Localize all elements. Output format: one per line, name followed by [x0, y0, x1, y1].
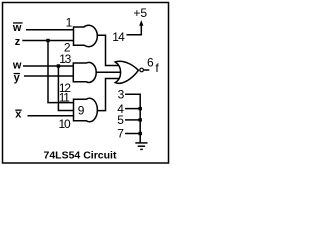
wire pin3 to ground bus: [125, 94, 140, 142]
wire G1 output to NOR top input: [97, 35, 122, 65]
wire z branch down to pin11: [48, 41, 75, 103]
input label w-bar: [12, 22, 23, 34]
wire x-bar to pin10: [28, 115, 75, 117]
NOR gate U1: [115, 61, 138, 83]
wire bubble to f: [144, 69, 150, 71]
border frame: [3, 3, 169, 164]
svg-text:w: w: [12, 22, 22, 34]
wire G2 output to NOR middle input: [96, 71, 122, 73]
input label y-bar: [14, 72, 21, 84]
ground symbol: [135, 143, 147, 150]
junction dot pin4: [139, 107, 142, 110]
wire pin7 to bus: [125, 133, 140, 135]
NOR output bubble pin 6: [140, 68, 144, 72]
svg-text:z: z: [15, 36, 21, 48]
svg-text:9: 9: [78, 103, 85, 117]
junction dot on w wire: [57, 64, 60, 67]
wire w branch down to pin9: [58, 66, 74, 111]
svg-text:5: 5: [117, 113, 124, 127]
svg-text:w: w: [12, 60, 22, 72]
svg-text:74LS54 Circuit: 74LS54 Circuit: [44, 149, 117, 161]
svg-text:11: 11: [59, 91, 71, 105]
svg-text:3: 3: [118, 87, 125, 101]
svg-text:1: 1: [66, 15, 73, 29]
wire pin4 to bus: [125, 108, 140, 110]
wire pin14 to +5 arrow: [127, 23, 142, 35]
wire pin5 to bus: [125, 119, 140, 121]
wire G3 output to NOR bottom input: [97, 79, 121, 111]
svg-text:6: 6: [147, 56, 154, 70]
wire z to pin2: [22, 40, 74, 42]
svg-text:13: 13: [59, 52, 71, 66]
AND gate G1 (pins 1,2): [74, 25, 98, 46]
wire w-bar to pin1: [26, 29, 75, 31]
wire w to pin13: [23, 65, 75, 67]
AND gate G2 (pins 13,12): [73, 62, 96, 82]
wire y-bar to pin12: [24, 75, 75, 77]
AND gate G3 (pins 11,9,10): [74, 98, 98, 122]
svg-text:10: 10: [59, 117, 71, 131]
junction dot on z wire: [46, 39, 49, 42]
input label x-bar: [15, 109, 22, 121]
junction dot pin5: [139, 118, 142, 121]
+5 arrowhead: [139, 20, 143, 26]
svg-text:14: 14: [112, 30, 125, 44]
junction dot pin7: [139, 132, 142, 135]
svg-text:+5: +5: [133, 6, 147, 20]
svg-text:7: 7: [117, 127, 124, 141]
